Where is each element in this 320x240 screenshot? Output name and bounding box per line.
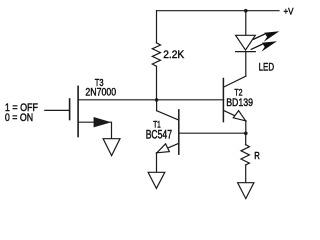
wire: gate input lead: [45, 109, 70, 111]
T2 collector diagonal: [224, 76, 246, 87]
T2 emitter arrow (open, pointing down-right): [233, 111, 245, 121]
node A junction (drain / 2.2K / T1 collector / T2 base): [155, 98, 159, 102]
wire: current-sense wire to T1 base: [179, 132, 246, 134]
svg-text:T1: T1: [153, 120, 161, 130]
LED cathode bar: [236, 51, 256, 53]
channel bar: [77, 86, 79, 136]
ground symbol (R bottom): [238, 183, 254, 199]
svg-text:R: R: [254, 151, 260, 162]
wire: T2 emitter down to node B: [245, 121, 247, 134]
wire: +V supply rail: [157, 10, 279, 12]
LED emission arrow lower: [251, 41, 277, 52]
svg-text:LED: LED: [259, 62, 275, 74]
svg-text:0 = ON: 0 = ON: [5, 112, 33, 124]
T1 base bar: [178, 110, 180, 154]
wire: R bottom lead to ground: [245, 165, 247, 182]
svg-text:BD139: BD139: [226, 97, 253, 109]
LED emission arrow upper: [254, 31, 280, 42]
svg-text:BC547: BC547: [146, 129, 172, 141]
ground symbol (T1 emitter): [148, 172, 165, 188]
LED triangle (anode): [236, 35, 256, 50]
transistor T3 2N7000 (N-channel MOSFET): [70, 86, 112, 138]
source lead: [78, 121, 94, 123]
wire: LED cathode down: [245, 52, 247, 76]
svg-text:+V: +V: [284, 7, 295, 17]
transistor T2 BD139 (NPN): [223, 76, 245, 133]
svg-text:2N7000: 2N7000: [85, 86, 116, 98]
LED D1: [236, 31, 280, 52]
T1 collector diagonal: [157, 111, 179, 120]
wire: LED anode from rail: [245, 11, 247, 36]
resistor R1 2.2K: [152, 43, 160, 66]
wire: T1 emitter down to ground: [156, 153, 158, 172]
T1 emitter diagonal: [157, 143, 179, 153]
wire: 2.2K bottom lead to node A: [156, 66, 158, 100]
ground symbol (T3 source): [103, 139, 120, 156]
T1 emitter arrow (open, pointing down-left): [157, 144, 170, 153]
node: rail / LED junction: [244, 9, 248, 13]
wire: node B down to resistor R: [245, 133, 247, 144]
node B junction (T2 emitter / R / T1 base): [244, 132, 248, 136]
svg-text:2.2K: 2.2K: [163, 49, 185, 61]
T2 emitter diagonal: [224, 111, 246, 121]
wire: T3 drain to T2 base (node A horizontal): [78, 99, 224, 101]
gate bar: [69, 99, 71, 120]
svg-text:T2: T2: [234, 88, 242, 98]
wire: T1 collector up to node A: [156, 100, 158, 111]
wire: rail down to 2.2K resistor: [156, 11, 158, 43]
T2 base bar: [222, 79, 224, 122]
transistor T1 BC547 (NPN, mirrored): [157, 100, 179, 172]
resistor R (emitter resistor): [241, 145, 249, 166]
source arrow (filled, pointing right): [94, 117, 110, 127]
wire: source corner down: [110, 122, 111, 138]
